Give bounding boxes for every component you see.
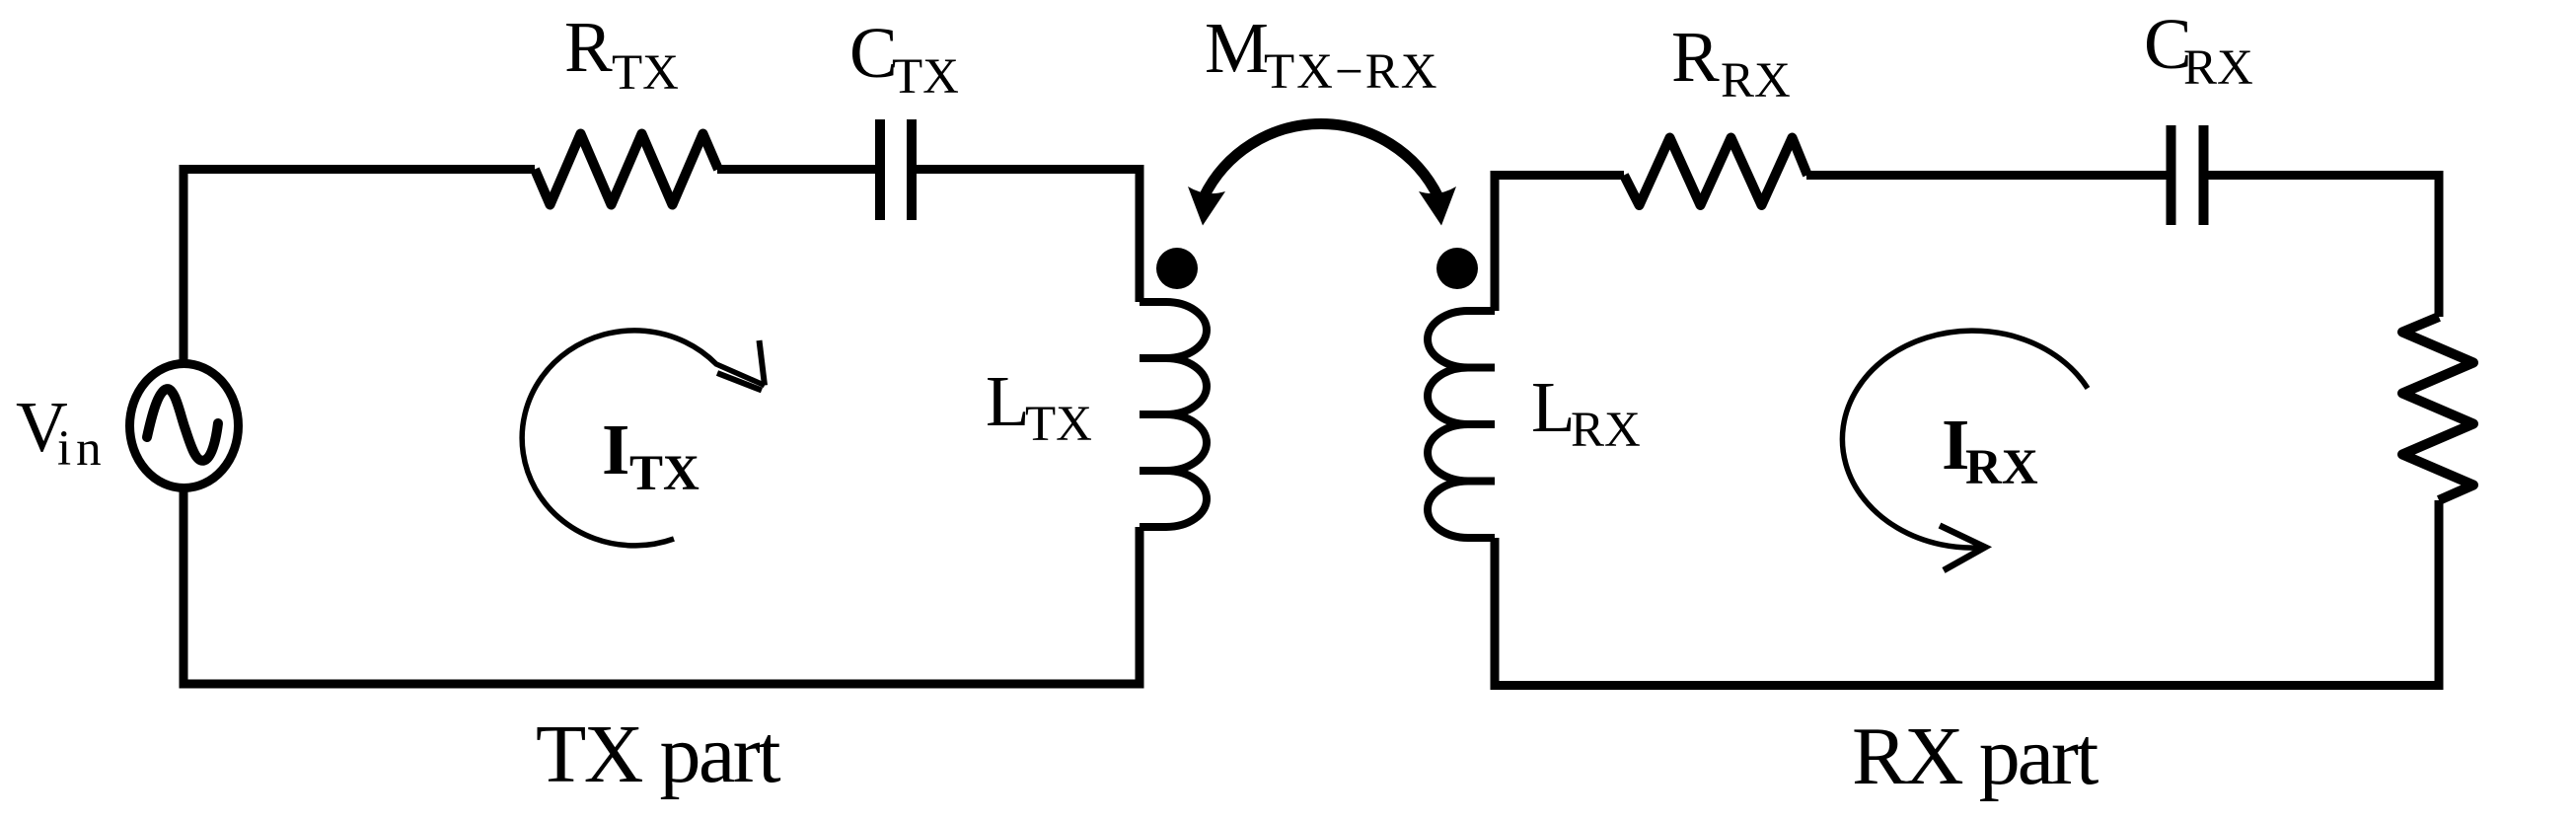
resistor RTX (535, 134, 718, 205)
wire RRX to CRX (1806, 171, 2171, 180)
inductor LTX (1140, 302, 1207, 527)
polarity dot RX (1436, 248, 1478, 289)
capacitor CRX (2171, 125, 2204, 225)
current loop arrow IRX (1842, 331, 2088, 548)
resistor RL (2402, 317, 2473, 500)
wire CTX to TX coil corner (911, 170, 1140, 303)
svg-text:RX: RX (1571, 403, 1641, 458)
svg-text:C: C (849, 13, 898, 93)
svg-text:in: in (57, 421, 107, 477)
wire RX top-left: from RX coil up and right to RRX (1495, 176, 1624, 312)
mutual coupling arc MTX-RX (1204, 124, 1438, 197)
wire TX top-left: from Vin top up and right to RTX (184, 170, 535, 364)
svg-text:R: R (564, 7, 613, 87)
inductor LRX (1428, 311, 1495, 538)
current loop arrow ITX (522, 331, 765, 546)
wire RX bottom loop (1495, 500, 2439, 686)
svg-text:TX: TX (892, 49, 959, 105)
svg-text:TX: TX (612, 45, 679, 101)
coupling arrowhead right (1419, 187, 1456, 226)
wire TX bottom loop (184, 488, 1140, 685)
svg-text:TX part: TX part (536, 709, 780, 800)
svg-text:RX: RX (1965, 440, 2038, 495)
coupling arrowhead left (1188, 187, 1225, 226)
svg-text:R: R (1671, 17, 1720, 97)
svg-text:RX: RX (2183, 40, 2253, 96)
wire CRX to RL corner (2202, 176, 2439, 318)
resistor RRX (1624, 138, 1807, 206)
svg-text:TX: TX (629, 446, 699, 501)
capacitor CTX (880, 119, 912, 220)
svg-text:RX: RX (1721, 53, 1791, 109)
svg-text:I: I (602, 410, 629, 489)
wire RTX to CTX (717, 165, 881, 174)
svg-text:L: L (1531, 367, 1576, 447)
svg-text:TX−RX: TX−RX (1264, 44, 1439, 100)
svg-text:RX part: RX part (1852, 710, 2098, 802)
voltage source Vin (130, 364, 239, 488)
svg-text:M: M (1205, 8, 1269, 88)
polarity dot TX (1156, 248, 1198, 289)
svg-text:TX: TX (1025, 397, 1092, 452)
svg-text:L: L (986, 361, 1030, 441)
